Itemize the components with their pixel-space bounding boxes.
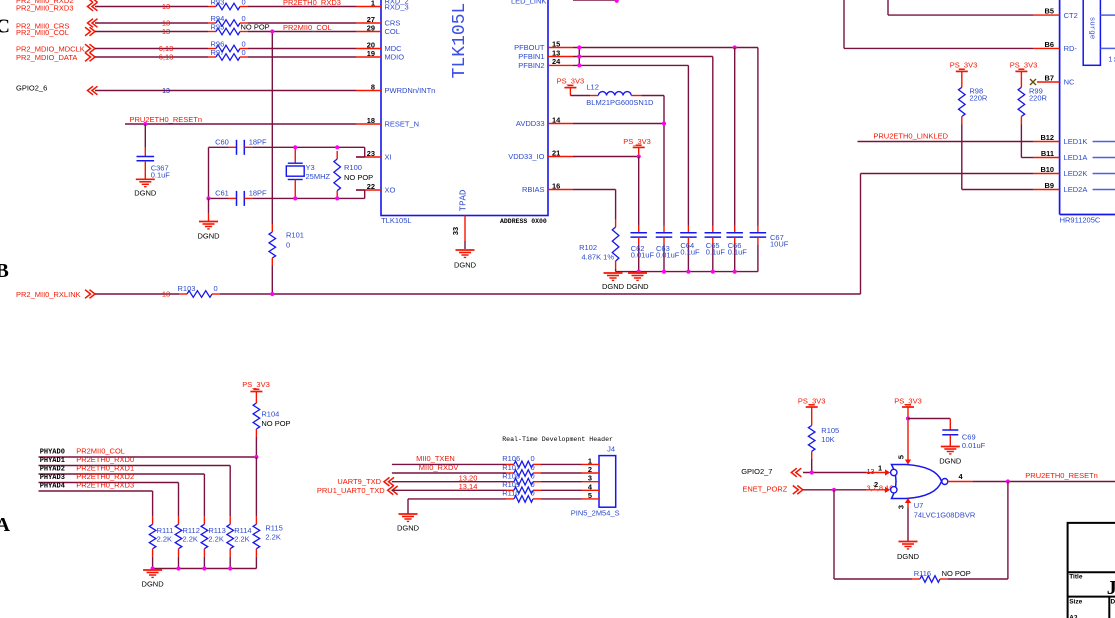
resistor R107 0 xyxy=(541,472,582,474)
junction PFB tie 3 xyxy=(577,63,581,67)
svg-text:13: 13 xyxy=(162,27,170,36)
svg-text:1: 1 xyxy=(371,0,375,7)
svg-text:18PF: 18PF xyxy=(249,189,267,198)
svg-text:24: 24 xyxy=(552,57,561,66)
resistor R112 2.2K xyxy=(178,516,180,524)
svg-text:TLK105L: TLK105L xyxy=(381,216,411,225)
svg-text:PRU2ETH0_RESETn: PRU2ETH0_RESETn xyxy=(1025,471,1098,480)
svg-text:B6: B6 xyxy=(1045,40,1054,49)
wire PR2_MII0_COL row xyxy=(95,31,208,33)
svg-text:U7: U7 xyxy=(914,501,924,510)
resistor R106 0 xyxy=(541,463,582,465)
svg-text:LED1K: LED1K xyxy=(1064,137,1088,146)
U7 output pin 4 xyxy=(948,481,973,483)
U7 power pin 5 xyxy=(907,420,909,461)
svg-text:74LVC1G08DBVR: 74LVC1G08DBVR xyxy=(914,511,976,520)
svg-text:DGND: DGND xyxy=(454,261,477,270)
svg-text:R115: R115 xyxy=(265,524,282,533)
svg-text:NO POP: NO POP xyxy=(344,173,373,182)
wire R104 to PHYAD0 row xyxy=(255,437,257,457)
svg-text:A3: A3 xyxy=(1069,615,1078,618)
wire PFB tie vertical xyxy=(578,48,580,66)
wire PR2_MDIO_DATA row xyxy=(95,56,208,58)
capacitor C60 18PF xyxy=(229,146,237,148)
resistor R104 NO POP xyxy=(255,392,257,404)
svg-text:0: 0 xyxy=(531,489,535,498)
svg-text:25MHZ: 25MHZ xyxy=(306,172,331,181)
svg-text:PRU1_UART0_TXD: PRU1_UART0_TXD xyxy=(317,486,385,495)
chip pin 1 (RXD_3) stub xyxy=(356,6,381,8)
capacitor C66 0.1uF xyxy=(734,226,736,233)
resistor R105 10K xyxy=(811,407,813,418)
resistor R94 0 xyxy=(208,22,216,24)
svg-text:13: 13 xyxy=(162,88,170,95)
svg-text:ENET_PORZ: ENET_PORZ xyxy=(742,485,787,494)
svg-text:R102: R102 xyxy=(579,243,597,252)
junction C367 tap xyxy=(143,122,147,126)
svg-text:21: 21 xyxy=(552,148,560,157)
svg-text:23: 23 xyxy=(367,149,375,158)
svg-text:RBIAS: RBIAS xyxy=(522,185,545,194)
jack pin B10 (LED2K) stub xyxy=(1033,173,1060,175)
svg-text:DGND: DGND xyxy=(626,282,649,291)
junction PFB tie 2 xyxy=(577,54,581,58)
svg-text:GPIO2_7: GPIO2_7 xyxy=(741,467,772,476)
svg-text:3,7,8,10: 3,7,8,10 xyxy=(866,484,893,493)
svg-text:B7: B7 xyxy=(1045,74,1054,83)
svg-text:R104: R104 xyxy=(261,410,279,419)
jack pin B5 (CT2) stub xyxy=(1033,14,1060,16)
svg-text:PHYAD3: PHYAD3 xyxy=(40,474,65,482)
wire GPIO2_6 to pin 8 xyxy=(95,90,356,92)
resistor R114 2.2K xyxy=(229,516,231,524)
svg-text:MII0_RXDV: MII0_RXDV xyxy=(419,463,459,472)
junction Y3 top xyxy=(293,145,297,149)
wire C67 column xyxy=(757,48,759,226)
svg-text:PHYAD4: PHYAD4 xyxy=(40,483,65,491)
svg-text:18PF: 18PF xyxy=(249,138,267,147)
wire PS_3V3 to L12 xyxy=(570,95,590,97)
connector J4 PIN5_2M54_S body xyxy=(599,456,616,508)
resistor R116 NO POP xyxy=(912,578,920,580)
svg-text:AVDD33: AVDD33 xyxy=(516,119,545,128)
junction ground rail xyxy=(637,270,641,274)
svg-text:10UF: 10UF xyxy=(770,240,789,249)
junction R100 bottom xyxy=(335,196,339,200)
junction Y3 bottom xyxy=(293,196,297,200)
svg-text:RXD_3: RXD_3 xyxy=(385,3,409,12)
svg-text:13: 13 xyxy=(162,290,170,299)
svg-text:14: 14 xyxy=(552,115,561,124)
svg-text:DGND: DGND xyxy=(602,282,625,291)
wire PHYAD ground rail xyxy=(153,568,257,570)
svg-text:15: 15 xyxy=(552,39,560,48)
svg-text:RESET_N: RESET_N xyxy=(385,120,420,129)
U7 input pin 1 xyxy=(866,472,886,474)
svg-text:33: 33 xyxy=(451,227,460,235)
wire PHYAD3 row xyxy=(39,482,179,484)
capacitor C65 0.1uF xyxy=(712,226,714,233)
svg-text:Real-Time Development Header: Real-Time Development Header xyxy=(502,436,613,443)
PHY chip U? TLK105L body xyxy=(381,0,548,216)
jack pin B12 (LED1K) stub xyxy=(1033,141,1060,143)
svg-text:6,13: 6,13 xyxy=(159,53,174,62)
wire crystal left rail xyxy=(208,147,210,198)
svg-text:B12: B12 xyxy=(1040,133,1054,142)
jack pin B7 (NC) stub xyxy=(1037,81,1060,83)
wire AVDD33 row xyxy=(573,123,664,125)
title block frame xyxy=(1068,523,1115,618)
junction AVDD33 xyxy=(662,121,666,125)
ground DGND below C367 xyxy=(136,178,155,180)
svg-text:C: C xyxy=(0,15,10,37)
svg-text:R105: R105 xyxy=(821,426,839,435)
jack internal surge box xyxy=(1083,0,1100,65)
svg-text:4.87K 1%: 4.87K 1% xyxy=(581,253,614,262)
svg-text:DGND: DGND xyxy=(897,552,920,561)
jack internal transformer leads xyxy=(1100,14,1115,16)
wire TPAD to ground xyxy=(464,241,466,249)
svg-text:HR911205C: HR911205C xyxy=(1060,216,1101,225)
svg-text:B5: B5 xyxy=(1045,7,1054,16)
wire R101 to RXLINK row xyxy=(271,266,273,294)
junction RXLINK / COL net xyxy=(270,292,274,296)
svg-text:2: 2 xyxy=(588,465,592,474)
svg-text:PR2_MDIO_DATA: PR2_MDIO_DATA xyxy=(16,53,77,62)
resistor R102 4.87K 1% xyxy=(615,219,617,227)
svg-text:PFBIN1: PFBIN1 xyxy=(518,52,544,61)
svg-text:NC: NC xyxy=(1064,78,1075,87)
svg-text:DGND: DGND xyxy=(142,580,165,589)
ethernet jack J? HR911205C body xyxy=(1059,0,1061,215)
svg-text:22: 22 xyxy=(367,182,375,191)
ground DGND below U7 xyxy=(899,541,918,543)
svg-text:COL: COL xyxy=(385,27,400,36)
junction R100 top xyxy=(335,145,339,149)
svg-text:R100: R100 xyxy=(344,163,362,172)
svg-text:0: 0 xyxy=(242,0,246,7)
junction crystal left bottom xyxy=(206,196,210,200)
jack pin B11 (LED1A) stub xyxy=(1033,157,1060,159)
svg-text:PIN5_2M54_S: PIN5_2M54_S xyxy=(571,508,620,517)
svg-text:J: J xyxy=(1107,577,1115,599)
resistor R115 2.2K xyxy=(255,516,257,524)
svg-text:DGND: DGND xyxy=(397,524,420,533)
junction PFB tie 1 xyxy=(577,45,581,49)
chip pin 29 (COL) stub xyxy=(356,31,381,33)
wire PHYAD4 row xyxy=(39,490,153,492)
svg-text:NO POP: NO POP xyxy=(261,419,290,428)
svg-text:C69: C69 xyxy=(962,433,976,442)
wire R105 to GPIO2_7 row xyxy=(811,459,813,473)
svg-text:0: 0 xyxy=(214,284,218,293)
wire to CT2 (B5) xyxy=(887,0,889,15)
wire caps ground rail xyxy=(616,271,758,273)
chip pin 22 (XO) stub xyxy=(356,189,381,191)
svg-text:R103: R103 xyxy=(178,284,196,293)
chip pin 24 (PFBIN2) stub xyxy=(548,64,573,66)
wire U7 output PRU2ETH0_RESETn xyxy=(973,481,1115,483)
ground DGND below C69 xyxy=(941,446,960,448)
svg-text:PRU2ETH0_RESETn: PRU2ETH0_RESETn xyxy=(130,115,203,124)
svg-text:LED_LINK: LED_LINK xyxy=(511,0,546,6)
AND gate U7 74LVC1G08DBVR body xyxy=(892,465,942,499)
junction PHYAD rail xyxy=(176,566,180,570)
chip pin 19 (MDIO) stub xyxy=(356,56,381,58)
svg-text:VDD33_IO: VDD33_IO xyxy=(508,152,544,161)
capacitor C63 0.01uF xyxy=(663,226,665,233)
svg-text:R97: R97 xyxy=(211,48,225,57)
junction PHYAD rail xyxy=(151,566,155,570)
wire R98 to LED2A (B9) xyxy=(961,125,963,190)
junction PR2MII0_COL row xyxy=(270,29,274,33)
svg-text:PR2_MII0_RXD3: PR2_MII0_RXD3 xyxy=(16,4,74,13)
svg-text:0: 0 xyxy=(531,463,535,472)
wire VCC rail to C69 xyxy=(908,418,950,420)
no-connect X on B7 xyxy=(1030,79,1036,85)
svg-text:PHYAD1: PHYAD1 xyxy=(40,457,65,465)
svg-text:13: 13 xyxy=(552,48,560,57)
svg-text:GPIO2_6: GPIO2_6 xyxy=(16,84,47,93)
resistor R96 0 xyxy=(208,48,216,50)
svg-text:Y3: Y3 xyxy=(306,163,315,172)
svg-text:C61: C61 xyxy=(215,189,229,198)
resistor R100 NO POP xyxy=(336,151,338,159)
wire R111 column xyxy=(152,491,154,516)
crystal Y3 25MHZ xyxy=(294,147,296,163)
connector J4 pin 2 stub xyxy=(582,472,600,474)
wire to crystal ground xyxy=(208,198,210,213)
svg-text:29: 29 xyxy=(367,23,375,32)
svg-text:PS_3V3: PS_3V3 xyxy=(242,380,270,389)
svg-text:0.1uF: 0.1uF xyxy=(680,248,700,257)
ground DGND below R102 xyxy=(604,272,623,274)
svg-text:LED1A: LED1A xyxy=(1064,153,1088,162)
chip pin 21 (VDD33_IO) stub xyxy=(548,156,573,158)
chip pin 13 (PFBIN1) stub xyxy=(548,56,573,58)
resistor R95 NO POP xyxy=(208,31,216,33)
chip pin 23 (XI) stub xyxy=(356,156,381,158)
wire GPIO2_7 to U7 pin 1 xyxy=(803,472,866,474)
wire R99 to LED1A (B11) xyxy=(1020,125,1022,158)
resistor R110 0 xyxy=(541,498,582,500)
wire PRU2ETH0_RESETn to pin 18 xyxy=(125,123,356,125)
junction ground rail xyxy=(733,270,737,274)
svg-text:LED2A: LED2A xyxy=(1064,185,1088,194)
wire J4 pin4 xyxy=(392,489,506,491)
wire J4 pin2 xyxy=(392,472,506,474)
ground DGND at J4 pin5 xyxy=(399,513,418,515)
wire PR2_MII0_CRS row xyxy=(95,22,208,24)
resistor R99 220R xyxy=(1020,71,1022,87)
wire PR2_MDIO_MDCLK row xyxy=(95,48,208,50)
capacitor C62 0.01uF xyxy=(638,226,640,233)
svg-text:DGND: DGND xyxy=(197,232,220,241)
svg-text:NO POP: NO POP xyxy=(942,569,971,578)
svg-text:D: D xyxy=(1111,598,1115,605)
connector J4 pin 5 stub xyxy=(582,498,600,500)
wire crystal top rail xyxy=(209,146,229,148)
svg-text:2.2K: 2.2K xyxy=(157,535,172,544)
svg-text:0.01uF: 0.01uF xyxy=(656,251,680,260)
svg-text:DGND: DGND xyxy=(939,457,962,466)
wire R116 feedback loop xyxy=(833,490,835,579)
svg-text:19: 19 xyxy=(367,49,375,58)
svg-text:B: B xyxy=(0,260,9,282)
svg-text:0.1uF: 0.1uF xyxy=(706,248,726,257)
svg-text:5: 5 xyxy=(588,491,592,500)
svg-text:J4: J4 xyxy=(607,444,615,453)
svg-text:3: 3 xyxy=(897,505,906,509)
svg-text:1:: 1: xyxy=(1108,57,1115,65)
svg-text:R95: R95 xyxy=(211,23,225,32)
chip pin 20 (MDC) stub xyxy=(356,48,381,50)
wire R113 column xyxy=(203,474,205,516)
svg-text:Title: Title xyxy=(1069,574,1083,581)
svg-text:PS_3V3: PS_3V3 xyxy=(557,77,585,86)
svg-text:XO: XO xyxy=(385,186,396,195)
resistor R103 0 xyxy=(179,293,187,295)
svg-text:RD-: RD- xyxy=(1064,44,1078,53)
wire PFBIN2 row xyxy=(573,64,688,66)
wire L12 to AVDD33 / C63 xyxy=(642,95,665,97)
svg-text:13: 13 xyxy=(162,2,170,11)
wire LED_LINK stub at top edge xyxy=(573,0,617,1)
capacitor C69 0.01uF xyxy=(949,419,951,431)
svg-text:0.01uF: 0.01uF xyxy=(631,251,655,260)
chip pin 15 (PFBOUT) stub xyxy=(548,47,573,49)
wire XO entry xyxy=(364,190,366,198)
svg-text:NO POP: NO POP xyxy=(241,22,270,31)
U7 ground pin 3 xyxy=(907,499,909,509)
svg-text:XI: XI xyxy=(385,153,392,162)
resistor R93 0 xyxy=(208,6,216,8)
svg-text:PR2ETH0_RXD3: PR2ETH0_RXD3 xyxy=(283,0,341,7)
chip pin 14 (AVDD33) stub xyxy=(548,123,573,125)
svg-text:TLK105L: TLK105L xyxy=(450,3,470,79)
jack internal LED leads xyxy=(1093,141,1115,143)
wire J4 pin1 xyxy=(392,463,506,465)
junction ground rail xyxy=(711,270,715,274)
ground DGND below PHYAD rail xyxy=(143,569,162,571)
wire PR2MII0_COL vertical xyxy=(271,32,273,225)
svg-text:B11: B11 xyxy=(1041,149,1054,158)
capacitor C367 0.1uF xyxy=(144,124,146,147)
connector J4 pin 4 stub xyxy=(582,489,600,491)
svg-text:2.2K: 2.2K xyxy=(183,535,198,544)
wire J4 pin3 xyxy=(392,481,506,483)
svg-text:PFBOUT: PFBOUT xyxy=(514,43,545,52)
wire PHYAD2 row xyxy=(39,473,205,475)
svg-text:B10: B10 xyxy=(1040,165,1054,174)
junction output / R116 xyxy=(1006,479,1010,483)
svg-text:10K: 10K xyxy=(821,435,834,444)
svg-text:LED2K: LED2K xyxy=(1064,169,1088,178)
svg-text:PWRDNn/INTn: PWRDNn/INTn xyxy=(385,86,436,95)
wire XI entry xyxy=(364,147,366,157)
junction ground rail xyxy=(686,270,690,274)
ground DGND below TPAD xyxy=(456,249,475,251)
svg-text:MDIO: MDIO xyxy=(385,53,405,62)
junction PHYAD0 / R104 xyxy=(254,455,258,459)
svg-text:0.01uF: 0.01uF xyxy=(962,441,986,450)
wire U7 pin 3 to ground xyxy=(907,508,909,541)
ground DGND below crystal rail xyxy=(199,221,218,223)
wire RBIAS row xyxy=(573,189,616,191)
capacitor C67 10UF xyxy=(757,226,759,233)
svg-text:0.1uF: 0.1uF xyxy=(151,171,171,180)
svg-text:ADDRESS 0X00: ADDRESS 0X00 xyxy=(500,218,547,225)
svg-text:2.2K: 2.2K xyxy=(208,535,223,544)
wire to RD- (B6) xyxy=(843,0,845,48)
capacitor C61 18PF xyxy=(229,197,237,199)
inductor L12 BLM21PG600SN1D xyxy=(590,95,598,97)
jack pin B6 (RD-) stub xyxy=(1033,47,1060,49)
svg-text:PHYAD2: PHYAD2 xyxy=(40,466,65,474)
resistor R101 0 xyxy=(271,224,273,232)
svg-text:PR2_MII0_RXLINK: PR2_MII0_RXLINK xyxy=(16,290,81,299)
svg-text:PR2ETH0_RXD3: PR2ETH0_RXD3 xyxy=(76,481,134,490)
svg-text:1: 1 xyxy=(878,463,882,472)
svg-text:0.1uF: 0.1uF xyxy=(728,248,748,257)
svg-text:Size: Size xyxy=(1069,598,1082,605)
connector J4 pin 3 stub xyxy=(582,481,600,483)
svg-text:0: 0 xyxy=(242,48,246,57)
wire VDD33_IO row xyxy=(573,156,639,158)
svg-text:R116: R116 xyxy=(914,569,931,578)
svg-text:16: 16 xyxy=(552,181,560,190)
junction C66 tap xyxy=(733,45,737,49)
svg-text:220R: 220R xyxy=(969,94,988,103)
wire PR2_MII0_RXLINK xyxy=(95,293,179,295)
svg-text:2.2K: 2.2K xyxy=(265,533,280,542)
wire ENET_PORZ to U7 pin 2 xyxy=(803,489,866,491)
junction PHYAD rail xyxy=(202,566,206,570)
U7 input pin 2 xyxy=(866,489,886,491)
resistor R113 2.2K xyxy=(203,516,205,524)
wire crystal bottom rail xyxy=(209,197,229,199)
svg-text:PRU2ETH0_LINKLED: PRU2ETH0_LINKLED xyxy=(873,131,948,140)
wire R112 column xyxy=(178,483,180,517)
connector J4 pin 1 stub xyxy=(582,463,600,465)
resistor R111 2.2K xyxy=(152,516,154,524)
capacitor C64 0.1uF xyxy=(687,226,689,233)
svg-text:TPAD: TPAD xyxy=(459,190,469,212)
chip pin 8 (PWRDNn/INTn) stub xyxy=(356,90,381,92)
junction ground rail xyxy=(662,270,666,274)
svg-text:PS_3V3: PS_3V3 xyxy=(1010,60,1038,69)
junction U7 VCC rail xyxy=(906,416,910,420)
svg-text:8: 8 xyxy=(371,82,375,91)
chip pin 33 TPAD stub xyxy=(464,216,466,242)
jack pin B9 (LED2A) stub xyxy=(1033,189,1060,191)
svg-text:18: 18 xyxy=(367,116,375,125)
wire R114 column xyxy=(229,466,231,517)
chip pin 27 (CRS) stub xyxy=(356,22,381,24)
wire PFBOUT row xyxy=(573,47,758,49)
wire C65 column xyxy=(712,57,714,226)
wire J4 pin5 to ground xyxy=(408,498,506,500)
wire PHYAD0 row xyxy=(39,456,257,458)
svg-text:5: 5 xyxy=(897,455,906,459)
resistor R97 0 xyxy=(208,56,216,58)
chip pin 16 (RBIAS) stub xyxy=(548,189,573,191)
svg-text:2.2K: 2.2K xyxy=(234,535,249,544)
svg-text:B9: B9 xyxy=(1045,181,1054,190)
wire C64 column xyxy=(687,65,689,225)
svg-text:DGND: DGND xyxy=(134,189,157,198)
svg-text:surge: surge xyxy=(1088,17,1096,40)
